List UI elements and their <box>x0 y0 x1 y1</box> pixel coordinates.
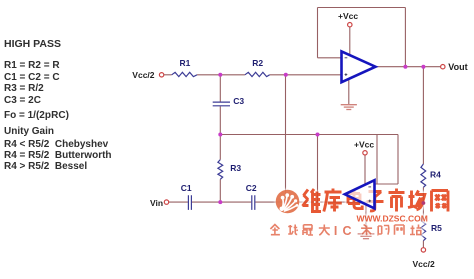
wire bottom feedback left vertical <box>376 135 378 185</box>
label R4 = R5/2 Butterworth <box>4 151 112 161</box>
op-amp U1 <box>342 51 376 82</box>
wire R3 to node B <box>219 179 221 202</box>
svg-text:R1: R1 <box>180 58 191 68</box>
wire C1 to C2 through node B <box>192 201 251 203</box>
svg-text:C: C <box>343 224 352 238</box>
svg-text:R2: R2 <box>252 58 263 68</box>
watermark big row orange strokes <box>303 189 449 212</box>
resistor R4 <box>421 164 426 187</box>
svg-text:+Vcc: +Vcc <box>338 11 358 21</box>
wire Vout node to R4 <box>422 67 424 164</box>
wire top feedback right vertical to output <box>404 8 406 67</box>
resistor R5 <box>421 217 426 241</box>
svg-text:C3: C3 <box>233 96 244 106</box>
label Fo = 1/(2pRC) <box>4 111 69 121</box>
wire R1 to R2 through node A <box>197 74 245 76</box>
node B junction (C1/C2/R3) <box>218 200 222 204</box>
junction Vout/R4 <box>421 65 425 69</box>
wire Vcc/2 terminal to R1 <box>164 74 172 76</box>
watermark logo circle <box>276 190 300 214</box>
label C3 = 2C <box>4 96 41 106</box>
watermark white halo <box>270 189 448 239</box>
wire bottom feedback bottom horizontal (U2 minus) <box>376 183 399 185</box>
node A junction (R1/R2/C3) <box>218 73 222 77</box>
terminal +Vcc (U2) <box>363 151 367 155</box>
resistor R3 <box>218 160 223 180</box>
wire R4 to R5 <box>422 187 424 217</box>
wire node A to C3 <box>219 75 221 102</box>
junction long wire / U2 output <box>316 133 320 137</box>
label R4 > R5/2 Bessel <box>4 162 87 172</box>
wire top feedback top horizontal <box>318 7 406 9</box>
wire +Vcc to U2 top <box>364 155 366 185</box>
svg-text:+Vcc: +Vcc <box>354 140 374 150</box>
svg-text:Vout: Vout <box>448 62 467 72</box>
resistor R2 <box>245 72 270 76</box>
svg-text:Vcc/2: Vcc/2 <box>413 259 435 269</box>
op-amp U2 (mirrored, points left) <box>345 180 375 208</box>
wire node C vertical (R2 node down to C2 node) <box>285 75 287 202</box>
wire +Vcc to U1 top <box>349 27 351 56</box>
wire R5 to Vcc/2 terminal <box>422 241 424 248</box>
label C1 = C2 = C <box>4 73 60 83</box>
label R4 < R5/2 Chebyshev <box>4 140 108 150</box>
junction node C bottom <box>284 200 288 204</box>
svg-text:R5: R5 <box>431 223 442 233</box>
ground (U1) <box>341 105 357 110</box>
junction feedback/Vout <box>403 65 407 69</box>
wire R2 to op-amp U1 plus input <box>270 74 342 76</box>
wire node D to R3 <box>219 135 221 160</box>
resistor R1 <box>172 72 197 76</box>
wire U2 ground lead <box>365 205 367 233</box>
svg-text:C1: C1 <box>181 183 192 193</box>
label R3 = R/2 <box>4 84 44 94</box>
label R1 = R2 = R <box>4 61 60 71</box>
terminal +Vcc (U1) <box>348 23 352 27</box>
wire node D long horizontal to bottom feedback <box>220 134 398 136</box>
capacitor C3 <box>213 102 230 106</box>
wire U1 minus input <box>318 57 342 59</box>
svg-text:C2: C2 <box>246 183 257 193</box>
terminal Vcc/2 (top left) <box>159 73 163 77</box>
terminal Vin <box>164 200 168 204</box>
svg-text:Vcc/2: Vcc/2 <box>132 70 154 80</box>
svg-text:R3: R3 <box>230 163 241 173</box>
ground (U2) <box>358 234 375 239</box>
wire node D2 vertical (long wire down to bottom rail) <box>317 135 319 203</box>
wire Vin terminal to C1 <box>169 201 188 203</box>
wire U1 ground lead <box>348 80 350 105</box>
node C junction (R2/U1+) <box>284 73 288 77</box>
wire bottom feedback right vertical <box>397 135 399 185</box>
svg-text:Vin: Vin <box>150 198 163 208</box>
svg-text:R4: R4 <box>430 170 441 180</box>
capacitor C1 <box>188 195 191 210</box>
junction R4/R5 <box>422 201 426 205</box>
svg-text:I: I <box>334 224 337 238</box>
title HIGH PASS <box>4 39 61 49</box>
terminal Vout <box>441 65 445 69</box>
wire U1 output to Vout <box>376 66 441 68</box>
wire C3 to node D <box>219 106 221 134</box>
watermark small row orange strokes <box>270 225 421 236</box>
wire top feedback left vertical (U1 minus) <box>317 8 319 58</box>
svg-text:WWW.DZSC.COM: WWW.DZSC.COM <box>357 214 428 224</box>
wire C2 to U2 plus input <box>255 201 374 203</box>
label Unity Gain <box>4 127 54 137</box>
capacitor C2 <box>252 195 255 210</box>
terminal Vcc/2 (bottom right) <box>421 248 425 252</box>
node D junction (C3/R3/long wire) <box>218 133 222 137</box>
